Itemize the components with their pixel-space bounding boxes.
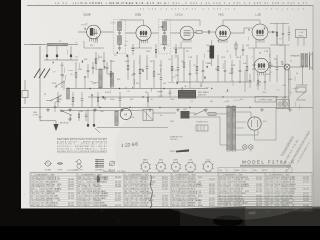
dial lamp LP1 <box>243 145 248 150</box>
band switch S1 contacts <box>56 82 63 86</box>
audio section bus wire <box>176 81 252 83</box>
valve base diagram 6M5 <box>171 162 180 171</box>
legend symbol fuse link <box>57 163 63 165</box>
wire lamp wiring <box>236 149 245 151</box>
wire HT secondary to rectifier <box>236 111 252 113</box>
voltage adjust panel <box>196 125 208 131</box>
wire IFT2 to V3 <box>171 32 181 34</box>
dark emphasised rows bottom right <box>218 196 312 198</box>
switch contact dot A <box>91 94 93 96</box>
cathode wire V3 <box>180 42 182 48</box>
fuse F1 <box>208 113 216 116</box>
grid resistor R15 <box>246 55 248 66</box>
IFT2 lower capacitor <box>164 45 166 47</box>
wire rectifier output <box>254 130 256 140</box>
wire V1 plate to IFT1 <box>100 31 113 33</box>
pickup head PU1 <box>143 110 153 121</box>
B+ rail segment 2 <box>165 19 201 21</box>
screen capacitor C12 <box>146 55 148 67</box>
cathode resistor R2 <box>72 92 74 97</box>
speaker field coil terminal box <box>296 87 306 92</box>
output terminal label box <box>255 97 276 103</box>
wire joining trimmer bottoms <box>44 59 78 61</box>
headphone jack J1 <box>284 64 290 70</box>
wire from rod down leg 3 <box>70 46 72 55</box>
chassis ground bus wire <box>21 107 313 109</box>
earth run wire <box>40 120 56 122</box>
B+ rail segment 3 <box>223 19 260 21</box>
legend symbol aerial coil <box>110 161 115 166</box>
IFT1 lower capacitor <box>119 45 121 47</box>
heater wiring <box>236 121 247 123</box>
muting switch S5 <box>62 111 70 115</box>
filter capacitor C32 <box>119 92 121 99</box>
paper right margin strip beyond border line <box>313 0 320 209</box>
rotated company stamp text <box>274 124 316 175</box>
gang trimmer capacitor C3 <box>61 62 63 74</box>
paper bottom edge highlight <box>246 207 312 209</box>
coupling capacitor C33 <box>169 89 171 93</box>
IFT2 primary winding <box>163 22 166 31</box>
output transformer T2 <box>301 54 304 68</box>
ground symbol G1 <box>47 108 49 110</box>
mains plug PL1 <box>181 111 190 119</box>
grid leak resistor R7 <box>153 60 155 72</box>
oscillator trimmer C6 <box>106 62 108 67</box>
wire pickup wiring <box>60 110 143 112</box>
coupling capacitor C16 <box>202 60 204 70</box>
grid resistor R1 <box>57 92 59 97</box>
wire from rod down leg 1 <box>46 46 48 55</box>
cathode resistor R20 <box>155 44 157 49</box>
IF transformer IFT2 shield box <box>159 20 171 54</box>
ground symbol G8 <box>233 108 235 110</box>
oscillator coil L2 <box>99 69 102 88</box>
AVC filter capacitor C15 <box>189 60 191 73</box>
IF bypass capacitor C13 <box>160 60 162 78</box>
valve base diagram 6V4 <box>203 162 213 172</box>
IFT1 tuning capacitors <box>119 31 121 32</box>
mains switch S4 <box>196 111 204 115</box>
transformer core lines <box>230 106 232 151</box>
power transformer T1 secondary winding <box>232 106 235 151</box>
grid stopper resistor R18 <box>235 41 237 44</box>
ground symbol G2 <box>69 108 71 110</box>
cathode resistor R16 <box>269 48 271 63</box>
dark blob on scanner bed bottom <box>213 216 243 227</box>
IF transformer IFT1 shield box <box>114 20 126 54</box>
IFT1 primary winding <box>118 22 121 31</box>
trimmer capacitor T2 <box>56 55 58 58</box>
dial lamp LP2 <box>249 145 254 150</box>
dark switch wedge mark <box>176 149 189 152</box>
valve base diagram 6AN7 <box>141 162 150 171</box>
heater wire V5 <box>255 42 257 48</box>
wire V4 plate to V5 grid <box>230 32 244 34</box>
output pentode tube V5 <box>252 24 268 40</box>
right vertical feed wire <box>284 45 286 108</box>
legend symbol dial lamps pair <box>77 160 81 164</box>
ground symbol G3 <box>94 108 96 110</box>
power transformer T1 primary winding <box>227 106 230 151</box>
oscillator grid resistor R11 <box>75 62 77 73</box>
choke label box L10 <box>296 30 307 38</box>
decoupling capacitor C19 <box>224 60 226 70</box>
IFT1 secondary winding <box>118 36 121 45</box>
wire V1 grid <box>78 31 87 33</box>
bleeder resistor R23 <box>147 92 149 98</box>
tone capacitor C20 <box>239 60 241 70</box>
wire V6 plate to jack <box>269 65 284 68</box>
screen feed wire V1 <box>83 41 85 48</box>
cathode resistor R6 <box>139 55 141 69</box>
tone capacitor C24 <box>54 102 56 106</box>
pickup coil L6 <box>115 111 118 126</box>
valve base diagram 6N8 <box>156 162 165 171</box>
cathode capacitor C22 <box>276 55 278 68</box>
wire V2 plate to IFT2 <box>151 32 158 34</box>
cathode bias resistor R17 <box>257 74 259 80</box>
bypass capacitor C31 <box>242 44 244 49</box>
detector coil L5 <box>111 73 114 87</box>
ground symbol pickup <box>69 117 71 119</box>
screen resistor R24 <box>276 23 278 32</box>
tone corrector capacitor C36 <box>288 26 290 33</box>
title underline <box>240 164 291 166</box>
output tube V6 (lower) <box>254 58 268 72</box>
screen dropper R21 <box>175 44 177 49</box>
trimmer capacitor T3 <box>70 55 72 58</box>
motor M1 <box>120 108 131 119</box>
phono lead stub 2 <box>93 109 95 124</box>
screen bypass capacitor C9 <box>87 64 89 70</box>
loudspeaker LS1 <box>309 52 311 70</box>
ground symbol G9 <box>261 108 263 110</box>
wire IFT1 to V2 <box>126 32 136 34</box>
ground symbol G6 <box>177 108 179 110</box>
ink blotch mark <box>97 175 100 183</box>
coupling wire V6 <box>244 70 246 92</box>
antenna down-lead wire <box>39 46 41 121</box>
record/radio switch block S2 <box>178 90 196 99</box>
antenna terminal block <box>22 91 28 98</box>
cathode bypass capacitor C23 <box>264 74 266 81</box>
ground symbol G7 <box>205 108 207 110</box>
wire transformer to bus <box>302 66 304 85</box>
top margin ruler line <box>27 4 313 6</box>
legend symbol switch stack <box>95 159 104 161</box>
AVC capacitor C8 <box>81 92 83 99</box>
IF amplifier tube V2 <box>136 25 151 40</box>
plate capacitor C35 <box>282 23 284 33</box>
IFT2 tuning capacitors <box>164 31 166 32</box>
detector load resistor R8 <box>171 55 173 66</box>
cathode wire V2 <box>139 43 141 48</box>
trimmer capacitor T1 <box>46 55 48 58</box>
plate resistor R13 <box>217 55 219 66</box>
scan speckle noise <box>23 2 312 206</box>
converter tube V1 <box>87 25 101 39</box>
volume control potentiometer VR1 <box>210 46 215 59</box>
switch contact dot C <box>104 98 106 100</box>
parts list table frame <box>30 172 312 174</box>
wire V5 to output stage <box>268 31 277 33</box>
coupling resistor R12 <box>194 31 196 34</box>
filter electrolytic C25 C26 <box>277 100 290 109</box>
bypass capacitor C10 <box>103 52 105 60</box>
plate load resistor R3 <box>95 52 97 59</box>
AVC resistor R4 <box>110 60 112 72</box>
IFT2 secondary winding <box>163 36 166 45</box>
audio amplifier tube V4 <box>216 26 231 41</box>
wire output stage top <box>270 23 289 25</box>
decoupling resistor R14 <box>231 60 233 69</box>
RF filter capacitor C14 <box>177 55 179 68</box>
table row rules <box>30 177 312 179</box>
tone network capacitor C38 <box>85 111 87 116</box>
revision table <box>218 168 292 173</box>
valve base diagram 6X4 <box>186 163 196 173</box>
wire antenna rod to left terminal <box>24 44 42 46</box>
ferrite rod antenna L1 <box>30 44 47 46</box>
cathode capacitor C11 <box>133 60 135 73</box>
wire mains wiring <box>190 112 196 114</box>
tone switch S3 <box>52 96 60 100</box>
bias resistor R22 <box>97 92 99 98</box>
bottom scan area right lighter patch <box>245 207 320 227</box>
AVC filter resistor R9 <box>183 48 185 63</box>
wire junction dots <box>89 88 90 89</box>
wire B+ line <box>275 109 277 141</box>
ground symbol G10 <box>289 108 291 110</box>
legend symbol pilot lamp <box>45 161 50 166</box>
padder capacitor C5 <box>92 62 94 67</box>
rectifier tube V7 <box>248 117 261 130</box>
phono lead stub 1 <box>87 109 89 124</box>
alignment instruction table <box>57 137 107 139</box>
miscellaneous wiring fragments <box>159 69 161 73</box>
switch contact dot B <box>84 76 86 78</box>
phono diagonal lead <box>95 128 100 133</box>
B- bus wire <box>88 96 290 98</box>
grid capacitor C30 <box>132 44 134 49</box>
coupling capacitor C18 <box>205 31 209 33</box>
ground symbol G5 <box>149 108 151 110</box>
AVC bus wire <box>66 88 208 90</box>
table column rules <box>29 173 31 207</box>
wire from rod down leg 2 <box>56 46 58 55</box>
screen resistor R5 <box>127 55 129 65</box>
column header band <box>30 175 312 177</box>
coupling coil L3 <box>67 88 70 99</box>
scanner bed dust speckles <box>31 208 315 224</box>
tone network resistor R25 <box>78 111 80 114</box>
audio grid resistor R10 <box>196 55 198 66</box>
earth arrow symbol <box>53 124 58 131</box>
bypass capacitor C21 <box>253 48 255 64</box>
pen squiggle mark over table <box>150 175 152 208</box>
tuning gang capacitor plates <box>34 69 40 79</box>
page border right rule <box>312 5 314 207</box>
B+ rail segment 1 <box>120 19 144 21</box>
ground symbol G4 <box>121 108 123 110</box>
detector tube V3 <box>180 26 194 40</box>
